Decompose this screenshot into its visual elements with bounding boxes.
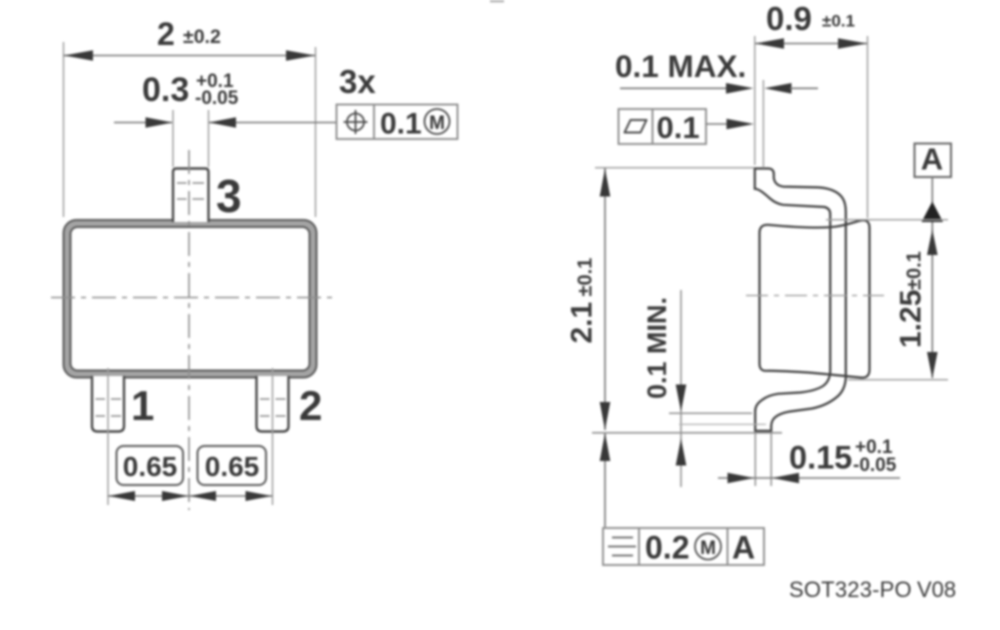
svg-text:V08: V08 bbox=[917, 577, 956, 602]
datum triangle on lead plane bbox=[922, 202, 944, 223]
dimension 0.15 +0.1/-0.05 bbox=[718, 433, 900, 486]
svg-text:0.1: 0.1 bbox=[657, 110, 700, 145]
body (side view) bbox=[760, 220, 870, 377]
dimension 0.1 MAX. bbox=[615, 48, 818, 94]
svg-text:0.1 MIN.: 0.1 MIN. bbox=[642, 297, 672, 399]
dimension 1.25 +/-0.1 bbox=[848, 222, 948, 380]
svg-text:±0.2: ±0.2 bbox=[183, 26, 221, 48]
pin 2 (bottom right) bbox=[257, 376, 289, 432]
svg-text:0.1: 0.1 bbox=[380, 108, 422, 141]
horizontal centerline bbox=[51, 297, 333, 299]
feature control frame: position 0.1 M bbox=[337, 105, 458, 141]
svg-text:A: A bbox=[732, 530, 755, 566]
svg-text:0.3: 0.3 bbox=[142, 71, 189, 109]
svg-text:1.25: 1.25 bbox=[895, 290, 928, 348]
svg-text:1: 1 bbox=[131, 382, 154, 429]
pin 1 (bottom left) bbox=[92, 376, 124, 432]
svg-text:2.1: 2.1 bbox=[566, 302, 599, 344]
lead plane extension line bbox=[826, 219, 948, 221]
bottom feature control frame: seating 0.2 M A bbox=[603, 528, 764, 566]
svg-text:0.2: 0.2 bbox=[645, 530, 689, 566]
vertical centerline bbox=[188, 150, 190, 510]
datum A box bbox=[915, 142, 952, 204]
pin 3 (top tab) bbox=[173, 169, 209, 223]
svg-text:M: M bbox=[700, 538, 716, 559]
svg-text:3x: 3x bbox=[339, 63, 376, 100]
svg-text:M: M bbox=[429, 113, 445, 134]
dimension 2 +/-0.2 bbox=[64, 16, 316, 217]
svg-text:0.9: 0.9 bbox=[766, 0, 812, 37]
svg-text:SOT323-PO: SOT323-PO bbox=[789, 577, 912, 602]
dimension 0.3 +0.1/-0.05 bbox=[114, 71, 336, 167]
svg-text:0.15: 0.15 bbox=[789, 440, 852, 476]
feature control frame: flatness 0.1 bbox=[619, 109, 755, 145]
dimension 0.1 MIN. bbox=[642, 290, 766, 487]
pin 1 axis line bbox=[107, 368, 109, 505]
body outline band bbox=[64, 220, 317, 378]
dimension 2.1 +/-0.1 bbox=[566, 168, 755, 527]
svg-text:-0.05: -0.05 bbox=[853, 455, 897, 476]
boxed dim 0.65 right bbox=[198, 446, 267, 485]
dimension 0.9 +/-0.1 bbox=[755, 0, 868, 218]
boxed dim 0.65 left bbox=[117, 446, 184, 485]
svg-text:2: 2 bbox=[157, 16, 175, 52]
svg-text:0.65: 0.65 bbox=[205, 451, 260, 482]
svg-text:0.1 MAX.: 0.1 MAX. bbox=[615, 48, 746, 84]
svg-text:-0.05: -0.05 bbox=[195, 88, 239, 109]
svg-text:2: 2 bbox=[299, 382, 322, 429]
body horizontal centerline (side view) bbox=[746, 295, 884, 297]
svg-text:±0.1: ±0.1 bbox=[822, 12, 855, 31]
svg-text:±0.1: ±0.1 bbox=[575, 258, 597, 297]
svg-text:0.65: 0.65 bbox=[123, 451, 178, 482]
lead band (pin 3 top, pins 1/2 bottom, one continuous profile) bbox=[755, 169, 846, 431]
svg-text:3: 3 bbox=[216, 170, 242, 222]
svg-text:±0.1: ±0.1 bbox=[904, 251, 926, 290]
seating plane line bbox=[592, 432, 782, 434]
pin 2 axis line bbox=[272, 368, 274, 505]
svg-text:A: A bbox=[921, 142, 943, 177]
top cropped mark bbox=[490, 0, 504, 3]
0.65 dimension lines and arrows bbox=[108, 491, 273, 501]
